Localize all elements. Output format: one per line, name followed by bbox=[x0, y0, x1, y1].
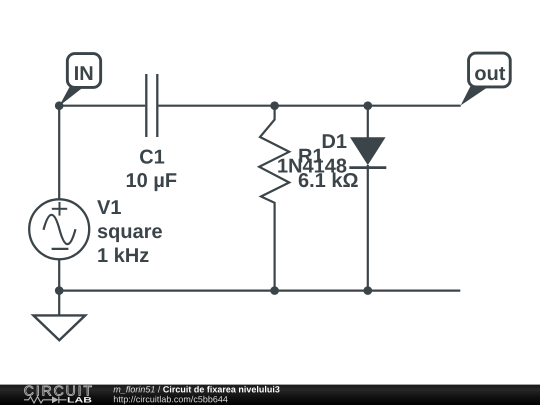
wire top rail left segment (node IN to C1 left plate) bbox=[59, 105, 145, 107]
IN callout tail bbox=[59, 87, 84, 107]
V1 frequency label 1 kHz bbox=[98, 248, 148, 262]
footer credit title Circuit de fixarea nivelului3 bbox=[163, 386, 279, 393]
CircuitLab logo diode glyph bbox=[52, 396, 59, 403]
CircuitLab logo wire and resistor glyph bbox=[24, 397, 67, 403]
wire V1 top lead bbox=[58, 106, 60, 200]
CircuitLab logo word LAB bbox=[68, 397, 92, 402]
footer bar background bbox=[0, 385, 540, 405]
diode D1 triangle bbox=[350, 137, 386, 165]
D1 name label bbox=[323, 134, 347, 148]
node IN callout box bbox=[67, 54, 100, 88]
R1 name label bbox=[299, 149, 323, 163]
V1 type label square bbox=[98, 227, 162, 242]
node out label text bbox=[475, 67, 505, 80]
capacitor C1 plates bbox=[146, 74, 157, 137]
node R1 bottom junction dot bbox=[270, 286, 279, 295]
node IN label text bbox=[75, 66, 92, 80]
node V1 bottom junction dot bbox=[55, 286, 64, 295]
diode D1 cathode bar bbox=[349, 166, 386, 169]
V1 sine wave glyph bbox=[44, 215, 76, 244]
C1 name label bbox=[140, 150, 164, 164]
diode D1 bottom lead wire bbox=[367, 165, 369, 291]
C1 value label 10 uF bbox=[127, 173, 177, 191]
wire top rail right segment (C1 right plate to out callout) bbox=[158, 105, 460, 107]
voltage source V1 circle bbox=[29, 199, 89, 259]
out callout tail bbox=[461, 87, 489, 106]
V1 minus sign bbox=[52, 248, 69, 250]
footer url http://circuitlab.com/c5bb644 bbox=[114, 396, 228, 404]
ground symbol bbox=[33, 315, 85, 340]
footer credit author m_florin51 bbox=[113, 386, 154, 394]
R1 value label 6.1 kOhm bbox=[299, 173, 358, 188]
footer credit separator slash bbox=[158, 386, 161, 393]
resistor R1 zigzag bbox=[259, 106, 289, 291]
node R1 top junction dot bbox=[270, 101, 279, 110]
D1 value label 1N4148 bbox=[278, 159, 346, 173]
node out callout box bbox=[469, 53, 511, 87]
V1 name label bbox=[97, 200, 121, 214]
wire ground stub bbox=[58, 291, 60, 315]
wire V1 bottom lead bbox=[58, 259, 60, 290]
node IN junction dot bbox=[55, 101, 64, 110]
V1 plus sign bbox=[52, 202, 67, 216]
CircuitLab logo word CIRCUIT bbox=[25, 386, 92, 396]
diode D1 top lead wire bbox=[367, 106, 369, 138]
node D1 top junction dot bbox=[364, 101, 373, 110]
node D1 bottom junction dot bbox=[364, 286, 373, 295]
wire bottom rail bbox=[59, 290, 460, 292]
